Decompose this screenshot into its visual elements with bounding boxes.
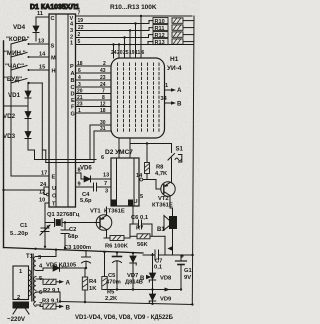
H1 right pin 34 arrow B [161,96,183,108]
wire mid rail y289.5 [105,289,182,291]
svg-text:18: 18 [77,61,83,67]
svg-text:~220V: ~220V [7,316,26,323]
svg-text:G1: G1 [184,268,193,274]
C1 label [10,223,29,237]
transistor VT1 [96,215,112,231]
wire diode column x28 [27,83,29,150]
svg-text:VD2: VD2 [3,113,16,120]
svg-text:C: C [71,85,75,91]
inverter circle pin O [46,193,49,196]
svg-text:R5: R5 [107,290,115,296]
svg-text:VD7: VD7 [127,273,138,279]
H1 right pin 1 arrow A [165,83,183,94]
svg-text:A: A [177,87,182,94]
svg-text:Q1 32768Гц: Q1 32768Гц [47,212,80,218]
svg-text:УИ-4: УИ-4 [167,65,182,72]
wire T1 pin5 R2 [36,278,43,280]
capacitor C2 [61,221,69,249]
svg-text:C: C [51,16,55,22]
svg-text:34: 34 [161,96,168,102]
svg-text:7: 7 [102,89,105,95]
svg-text:M: M [51,56,56,62]
D1 inside letters bottom [52,175,58,208]
wire drop display pin11 [135,24,137,59]
diode VD4 [33,26,39,41]
svg-text:6: 6 [101,155,104,161]
switch SB MIN [4,50,49,58]
svg-text:470m: 470m [106,280,121,286]
trimmer capacitor C1 [40,225,50,235]
wire H1 bottom to D2 pin [118,138,120,158]
switch SB KORR [6,36,49,45]
wire D1 pin9 to C4 [76,186,94,188]
svg-text:3: 3 [70,28,73,34]
capacitor C7 [143,250,193,260]
wire bus pin5 [76,44,194,46]
svg-text:23: 23 [77,102,83,108]
resistor R8 [145,144,150,174]
junction rail [2,189,4,191]
wire T1 pin3 to rail [34,248,57,257]
diode VD3 [25,132,31,139]
svg-text:1: 1 [78,108,81,114]
svg-text:E: E [71,98,75,104]
wire VD5 out to R4 top [85,267,86,269]
svg-text:12: 12 [100,102,106,108]
C2 label [68,227,78,240]
svg-text:68p: 68p [68,234,78,240]
svg-text:25: 25 [123,50,129,56]
svg-text:D: D [71,92,75,98]
svg-text:R11: R11 [155,26,165,32]
svg-text:5: 5 [78,39,81,45]
diode VD6 [84,176,111,182]
wire pin10 T [45,203,49,247]
wire bottom rail left [4,248,144,254]
svg-text:VD9: VD9 [160,297,172,303]
wire VT2 collector down to speaker [170,196,173,217]
svg-text:VD5 КД105: VD5 КД105 [46,263,77,269]
VT1 labels [90,209,125,215]
svg-text:14: 14 [136,173,143,179]
svg-text:1: 1 [165,83,168,89]
wire drop display pin24 [113,45,115,59]
svg-text:20: 20 [117,50,123,56]
wire seg E [76,99,112,101]
wire drop display pin19 [129,31,131,59]
diode VD1 [25,91,31,98]
T1 core [31,254,33,301]
svg-text:Н1: Н1 [170,56,179,63]
H1 left pin numbers [100,61,106,132]
wire drop display pin25 [124,38,126,59]
svg-text:VT1: VT1 [90,209,101,215]
zener VD9 [149,294,155,303]
svg-text:17: 17 [41,171,47,177]
wire drop display pin20 [118,45,120,59]
wire bottom rail [60,302,192,305]
G1 label [184,268,193,281]
svg-text:S1: S1 [176,147,184,153]
svg-text:R7: R7 [136,226,143,232]
svg-text:5: 5 [140,194,143,200]
svg-text:D1 КА1035ХЛ1: D1 КА1035ХЛ1 [30,4,79,11]
C4 label [80,192,92,204]
svg-text:6: 6 [78,68,81,74]
svg-text:R6 100K: R6 100K [105,244,129,250]
wire seg G [76,112,112,114]
svg-text:6: 6 [142,50,145,56]
crystal Q1 [45,219,62,227]
wire bus V pin7 top [76,15,193,17]
svg-text:C2: C2 [69,227,76,233]
svg-text:B: B [140,276,145,282]
R4 label [89,279,97,292]
svg-text:3: 3 [105,189,108,195]
svg-text:19: 19 [78,18,84,24]
zener VD7 [130,253,136,290]
capacitor C4 [94,183,112,191]
svg-text:F: F [71,105,75,111]
transformer T1 [13,254,43,314]
T1 secondary winding a [34,257,36,271]
svg-text:O: O [52,194,57,200]
svg-text:1: 1 [70,41,73,47]
wire bus pin22 [76,30,150,32]
wire seg A [76,72,112,74]
svg-text:5,6p: 5,6p [80,198,92,204]
svg-text:7: 7 [78,11,81,17]
D1 segment pin numbers [77,61,83,114]
svg-text:VD4: VD4 [13,24,26,31]
resistor R3 [36,304,64,309]
svg-text:VD1: VD1 [8,92,21,99]
wire W1 display pin30 [90,125,111,160]
wire seg F [76,106,112,108]
switch S1 [168,147,184,163]
display H1 UI-4 body [111,58,165,138]
IC U1 D1 KA1035XL1 body [49,14,76,207]
svg-text:43: 43 [100,68,106,74]
wire tap to S1 [130,142,172,152]
svg-text:H: H [52,69,56,75]
capacitor C6 [130,220,152,238]
wire long horizontal under D1 second [42,150,94,163]
svg-text:R10...R13 100K: R10...R13 100K [110,4,157,11]
VD7 label [125,273,143,286]
T1 secondary winding c [34,293,36,307]
svg-text:КТ361Е: КТ361Е [104,209,125,215]
svg-text:C5: C5 [108,273,116,279]
svg-text:22: 22 [78,25,84,31]
wire VT1 emitter down [104,230,107,239]
D1 inside letters top [51,16,75,75]
svg-text:3: 3 [78,82,81,88]
wire T1 pin6 [36,292,60,302]
svg-text:G: G [71,112,75,118]
svg-text:21: 21 [77,95,83,101]
svg-text:56K: 56K [137,242,148,248]
T1 pin numbers [38,255,43,308]
wire W2 display pin31 [94,131,111,163]
svg-text:5...20p: 5...20p [10,231,29,237]
wire AC leads [13,308,17,314]
resistor R13 [148,39,194,46]
svg-text:U: U [134,199,138,205]
segment wires D1 to H1 [76,66,112,113]
wire D1 pin8 to VD6 [76,173,85,179]
svg-text:24: 24 [40,182,47,188]
svg-text:24: 24 [100,82,106,88]
junction dots top bus [112,15,142,46]
svg-text:P: P [70,64,74,70]
wire bus pin2 [76,37,149,39]
wire bus pin19 [76,23,150,25]
svg-text:VD6: VD6 [80,166,92,172]
H1 label [167,56,182,72]
wire S1 to VT2 emitter [171,158,173,183]
resistor R2 [43,279,64,284]
svg-text:C3 1000m: C3 1000m [64,245,91,251]
B arrow into VD8 [140,275,152,282]
resistor R6 [104,236,130,241]
pin numbers D1 right top [78,11,84,46]
resistor R4 [82,277,87,302]
junction dots bottom [44,246,194,306]
svg-text:R8: R8 [156,165,164,171]
svg-text:R4: R4 [89,279,97,285]
diode VD5 [53,265,87,271]
svg-text:2: 2 [78,32,81,38]
svg-text:C1: C1 [20,223,28,229]
wire VD8 VD9 column [152,254,154,304]
C7 label [154,259,163,271]
svg-text:B: B [66,305,71,312]
svg-text:9V: 9V [184,275,191,281]
resistor R11 [149,25,194,32]
svg-text:4: 4 [78,75,81,81]
wire Q pin14 to R8 bottom and VT2 base [140,174,161,190]
wire seg C [76,86,112,88]
svg-text:C6 0,1: C6 0,1 [131,215,149,221]
svg-text:9: 9 [78,182,81,188]
svg-text:T1: T1 [26,254,34,260]
svg-text:0,1: 0,1 [154,265,163,271]
svg-text:R10: R10 [155,19,165,25]
wire seg B [76,79,112,81]
svg-text:2: 2 [17,295,20,301]
svg-text:S: S [51,44,55,50]
svg-text:12: 12 [39,190,45,196]
svg-text:14: 14 [39,52,46,58]
resistor R7 [130,234,165,255]
svg-text:2,2K: 2,2K [105,296,118,302]
svg-text:7: 7 [104,181,107,187]
wire pin11 C [36,17,49,26]
svg-text:VD3: VD3 [3,133,16,140]
resistor R10 [149,18,194,25]
wire pin17 E [11,175,49,177]
wire pin24 pin12 feed [4,187,50,195]
svg-text:R12: R12 [155,33,165,39]
wire H1 bottom to D2 pin b [129,138,131,158]
diode VD2 [25,112,31,119]
svg-text:VD1-VD4, VD6, VD8, VD9 - КД522: VD1-VD4, VD6, VD8, VD9 - КД522Б [75,315,174,321]
wire long horizontal under D1 [35,159,97,161]
arrowhead on mid rail [165,288,171,292]
capacitor C3 electrolytic [82,251,91,269]
capacitor C5 electrolytic [113,253,122,290]
wire rail stub y106 [4,105,29,107]
VT2 labels [152,196,173,209]
switch SB BUD [4,76,42,160]
wire switch common column x11 [10,44,12,176]
svg-text:R3 9,1: R3 9,1 [42,299,60,305]
wire speaker bottom [172,229,174,256]
transistor VT2 [161,182,175,196]
R8 label [155,165,168,178]
speaker B1 [164,216,177,231]
svg-text:10: 10 [39,198,45,204]
svg-text:B: B [71,78,75,84]
R7 label [136,226,148,249]
wire D2 U pin down [132,206,134,224]
switch SB CHAS [5,63,49,71]
svg-text:A: A [71,71,75,77]
wire T1 pin4 VD5 [36,270,43,272]
wire VT1 base left [62,222,100,224]
svg-text:13: 13 [103,173,109,179]
wire left rail x3.5 [3,41,5,248]
svg-text:2: 2 [103,61,106,67]
D1 segment letters [70,64,75,118]
wire right rail [192,16,194,305]
svg-text:VT2: VT2 [158,196,169,202]
svg-text:U: U [52,186,56,192]
svg-text:E: E [52,175,56,181]
svg-text:VD8: VD8 [160,276,172,282]
svg-text:B: B [177,101,182,108]
arrow tap on speaker wire [167,246,173,251]
T1 primary box [13,266,29,300]
svg-text:4,7K: 4,7K [155,171,168,177]
display top pin numbers 24 20 25 19 11 6 [111,50,145,56]
wire seg D [76,93,112,95]
svg-text:B1: B1 [157,227,165,233]
zener VD8 [149,273,155,282]
svg-text:R2 9,1: R2 9,1 [43,288,61,294]
svg-text:T: T [52,202,56,208]
svg-text:1K: 1K [89,286,97,292]
wire VT1 collector up stub [106,207,108,216]
svg-text:18: 18 [100,108,106,114]
wire seg P [76,65,112,67]
svg-text:23: 23 [100,75,106,81]
resistor R5 [102,252,107,290]
T1 secondary winding b [34,277,36,291]
battery G1 [176,254,187,290]
svg-text:20: 20 [77,89,83,95]
R5 label [105,290,118,303]
svg-text:11: 11 [37,11,43,17]
IC D2 UMC7 body [111,158,139,206]
svg-text:15: 15 [39,65,45,71]
wire drop display pin6 [140,16,142,58]
svg-text:13: 13 [38,39,44,45]
svg-text:8: 8 [102,95,105,101]
C5 label [106,273,121,286]
svg-text:R13: R13 [155,40,165,46]
svg-text:A: A [66,280,71,287]
resistor R12 [149,32,194,39]
